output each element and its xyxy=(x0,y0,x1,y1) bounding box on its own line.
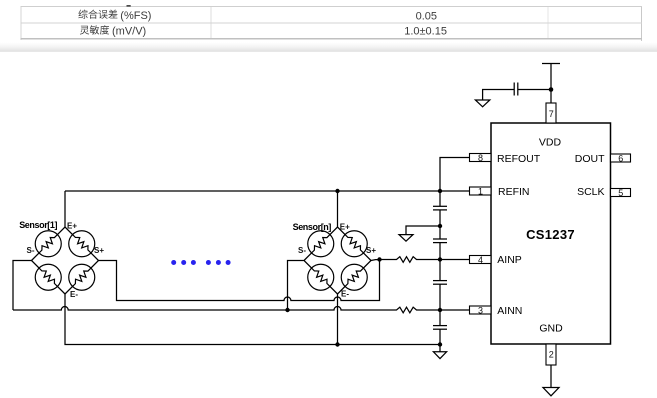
continuation dots (blue ellipsis) xyxy=(171,260,230,265)
Sensor[1] resistive element R4 (circle + zigzag) xyxy=(69,264,95,290)
svg-text:REFOUT: REFOUT xyxy=(497,153,541,165)
Sensor[n] resistive element R3 (circle + zigzag) xyxy=(308,264,334,290)
page gap shadow band xyxy=(0,43,657,52)
svg-text:AINP: AINP xyxy=(497,254,522,266)
junction dot AINN node xyxy=(438,308,442,312)
svg-text:DOUT: DOUT xyxy=(575,153,605,165)
ground symbol G1 (top left of chip) xyxy=(475,100,489,107)
svg-text:S+: S+ xyxy=(366,246,376,255)
pin 1 box (REFIN) xyxy=(470,187,492,195)
table row 1 label: 综合误差 (%FS) xyxy=(78,10,87,19)
wire cap chain seg 5 xyxy=(439,260,441,281)
Sensor[1] resistive element R1 (circle + zigzag) xyxy=(35,231,61,257)
capacitor C4 xyxy=(433,326,447,330)
svg-text:E+: E+ xyxy=(67,222,77,231)
svg-text:Sensor[1]: Sensor[1] xyxy=(19,220,57,230)
power rail VDD bar xyxy=(542,63,560,65)
wire cap chain seg 7 xyxy=(439,310,441,325)
svg-text:Sensor[n]: Sensor[n] xyxy=(293,222,332,232)
wire S-[1] to AINN rail xyxy=(13,261,32,311)
svg-text:1: 1 xyxy=(478,187,483,197)
wire pin2 to ground xyxy=(550,365,552,388)
wire REFIN rail (E+ excitation rail) xyxy=(65,190,470,192)
Sensor[n] resistive element R4 (circle + zigzag) xyxy=(341,264,367,290)
junction dot AINP node xyxy=(438,257,442,261)
svg-text:4: 4 xyxy=(478,255,483,265)
svg-text:AINN: AINN xyxy=(497,305,522,317)
wire cap chain seg 6 xyxy=(439,284,441,310)
wire REFOUT (pin8) to node at x440 then down xyxy=(440,158,470,192)
svg-text:1.0±0.15: 1.0±0.15 xyxy=(404,25,447,37)
ground symbol G4 (below chip) xyxy=(543,388,559,396)
svg-text:5: 5 xyxy=(618,188,623,198)
wire ground tap xyxy=(406,226,440,235)
op-amp / ADC chip U1 CS1237 body xyxy=(491,123,611,344)
wire S+ node to resistor (AINP line left) xyxy=(380,259,395,261)
Sensor[1] resistive element R2 (circle + zigzag) xyxy=(69,231,95,257)
wire capacitor to ground corner xyxy=(483,90,515,101)
ground symbol G3 (E- rail) xyxy=(433,352,446,359)
junction dot analog ground tap xyxy=(438,224,442,228)
wire S+ rail from Sensor[1] with hops xyxy=(99,260,380,301)
junction dot E- rail / ground xyxy=(438,342,442,346)
wire cap chain seg 4 xyxy=(439,243,441,260)
pin 3 box (AINN) xyxy=(470,306,492,314)
wire resistor to pin 3 xyxy=(419,309,470,311)
svg-text:CS1237: CS1237 xyxy=(526,227,575,242)
svg-text:SCLK: SCLK xyxy=(577,186,604,198)
pin 4 box (AINP) xyxy=(470,256,492,264)
svg-text:S-: S- xyxy=(298,246,306,255)
pin 2 box (GND) xyxy=(546,344,556,365)
svg-text:6: 6 xyxy=(618,154,623,164)
spec table grid lines xyxy=(20,6,642,41)
svg-text:(mV/V): (mV/V) xyxy=(112,26,146,38)
svg-text:8: 8 xyxy=(478,153,483,163)
wire cap chain seg 1 xyxy=(439,191,441,206)
wire cap chain seg 8 xyxy=(439,329,441,344)
wire E-[n] drop xyxy=(337,294,339,345)
pin 7 box (VDD) xyxy=(546,103,556,123)
pin 6 box (DOUT) xyxy=(611,154,631,162)
pin 5 box (SCLK) xyxy=(611,189,631,197)
svg-text:0.05: 0.05 xyxy=(416,11,437,23)
junction dot E+[n] on REFIN rail xyxy=(335,189,339,193)
resistor R-ainn xyxy=(395,307,419,313)
resistor R-ainp xyxy=(395,257,419,263)
svg-text:7: 7 xyxy=(549,109,554,119)
svg-text:E+: E+ xyxy=(340,223,350,232)
Sensor[n] resistive element R1 (circle + zigzag) xyxy=(308,231,334,257)
junction dot VDD node xyxy=(549,87,554,92)
svg-text:E-: E- xyxy=(70,290,78,299)
wire E-[1] drop and E- bottom rail xyxy=(65,294,440,345)
Sensor[n] resistive element R2 (circle + zigzag) xyxy=(341,231,367,257)
ground symbol G2 (filter mid tap) xyxy=(399,235,413,242)
capacitor C2 xyxy=(433,239,447,243)
capacitor C1 (REFIN filter) xyxy=(433,206,447,210)
capacitor C3 xyxy=(433,281,447,285)
sensor bridge Sensor[n] diagonal wires xyxy=(304,227,371,294)
wire S+[n] vertex to AINP junction xyxy=(371,259,380,262)
wire cap chain seg 2 xyxy=(439,210,441,226)
wire VDD vertical xyxy=(550,64,552,104)
junction dot S+ rail joins AINP xyxy=(377,257,381,261)
svg-text:E-: E- xyxy=(341,289,349,298)
svg-text:(%FS): (%FS) xyxy=(120,10,151,22)
svg-text:VDD: VDD xyxy=(539,137,562,149)
svg-text:REFIN: REFIN xyxy=(498,186,530,198)
junction dot E-[n] on E- rail xyxy=(335,342,339,346)
junction dot S-[n] joins AINN rail xyxy=(285,308,289,312)
svg-text:3: 3 xyxy=(478,306,483,316)
table row 2 label: 灵敏度 (mV/V) xyxy=(80,26,89,35)
junction dot REFIN/REFOUT/cap chain xyxy=(438,189,442,193)
svg-text:S+: S+ xyxy=(94,246,104,255)
capacitor C-vdd (decoupling) xyxy=(514,83,518,96)
wire to bottom ground xyxy=(439,345,441,352)
sensor bridge Sensor[1] diagonal wires xyxy=(32,227,99,294)
wire E+ riser Sensor[1] xyxy=(64,191,66,227)
wire E+ riser Sensor[n] xyxy=(337,191,339,227)
wire S-[n] drop to AINN rail xyxy=(288,261,304,311)
wire cap chain seg 3 xyxy=(439,226,441,239)
leftover glyph fragment from cropped row above xyxy=(127,5,131,7)
svg-text:S-: S- xyxy=(27,246,35,255)
Sensor[1] resistive element R3 (circle + zigzag) xyxy=(35,264,61,290)
wire resistor to pin 4 xyxy=(419,259,470,261)
svg-text:2: 2 xyxy=(549,350,554,360)
svg-text:GND: GND xyxy=(539,323,563,335)
wire AINN / S- rail with crossover hops xyxy=(13,307,395,310)
wire VDD node to decoupling capacitor xyxy=(518,89,551,91)
pin 8 box (REFOUT) xyxy=(470,154,492,162)
